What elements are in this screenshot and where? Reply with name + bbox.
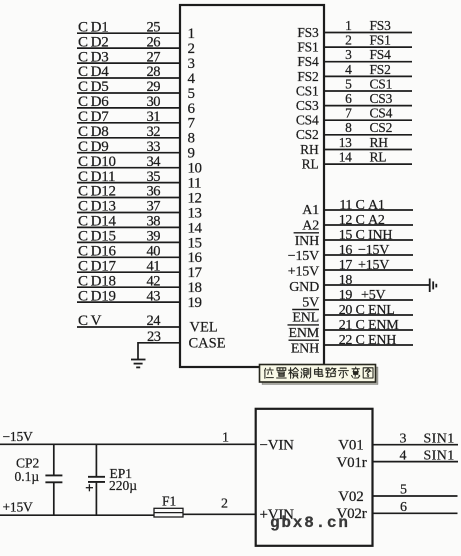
wire CD11 pin 35	[77, 182, 180, 184]
svg-text:18: 18	[339, 273, 353, 288]
wire V01r pin 4 (SIN1)	[373, 461, 459, 463]
svg-text:+15V: +15V	[288, 265, 319, 280]
svg-text:RL: RL	[370, 150, 387, 165]
svg-text:5: 5	[400, 482, 407, 497]
wire CD10 pin 34	[77, 167, 180, 169]
wire CD16 pin 40	[77, 256, 180, 258]
svg-text:24: 24	[147, 313, 162, 329]
svg-text:CS2: CS2	[296, 127, 319, 142]
svg-text:INH: INH	[295, 234, 319, 249]
svg-text:−15V: −15V	[358, 243, 389, 258]
svg-text:−15V: −15V	[288, 249, 319, 264]
wire CS2 pin 8	[324, 134, 412, 136]
svg-text:C: C	[356, 198, 365, 213]
caption box 位置检测电路示意图	[260, 365, 376, 383]
svg-text:CS2: CS2	[370, 120, 393, 135]
wire RH pin 13	[324, 149, 412, 151]
svg-text:C D2: C D2	[78, 34, 109, 50]
wire CD8 pin 32	[77, 137, 180, 139]
svg-text:FS2: FS2	[297, 69, 318, 84]
svg-text:12: 12	[339, 213, 353, 228]
wire CD13 pin 37	[77, 212, 180, 214]
wire CD17 pin 41	[77, 271, 180, 273]
svg-text:C D13: C D13	[78, 199, 116, 215]
svg-text:C D14: C D14	[78, 214, 117, 230]
wire ENH pin 22	[324, 344, 413, 346]
svg-text:2: 2	[188, 41, 195, 57]
wire CD9 pin 33	[77, 152, 180, 154]
svg-text:CS4: CS4	[296, 113, 319, 128]
wire CS4 pin 7	[324, 119, 412, 121]
svg-text:RL: RL	[302, 157, 319, 172]
svg-text:FS1: FS1	[370, 33, 391, 48]
svg-text:ENL: ENL	[292, 311, 319, 326]
svg-text:1: 1	[222, 430, 229, 445]
wire V02r pin 6	[373, 512, 458, 514]
svg-text:C D6: C D6	[78, 94, 109, 110]
svg-text:C D5: C D5	[78, 79, 109, 95]
polarity + mark for EP1	[86, 484, 93, 491]
wire CP2 bottom lead	[53, 483, 55, 515]
svg-text:11: 11	[339, 198, 352, 213]
svg-text:FS4: FS4	[297, 54, 319, 69]
svg-text:19: 19	[339, 288, 353, 303]
svg-text:27: 27	[147, 49, 161, 65]
svg-text:37: 37	[147, 199, 161, 215]
wire CD2 pin 26	[77, 47, 180, 49]
svg-text:CS1: CS1	[370, 76, 393, 91]
svg-text:C V: C V	[78, 313, 102, 329]
svg-text:+5V: +5V	[361, 288, 385, 303]
wire CD15 pin 39	[77, 241, 180, 243]
svg-text:V01: V01	[338, 438, 363, 454]
svg-text:SIN1: SIN1	[424, 448, 455, 463]
wire CD7 pin 31	[77, 122, 180, 124]
wire CV pin 24	[77, 326, 180, 328]
svg-text:7: 7	[345, 106, 352, 121]
svg-text:12: 12	[188, 190, 202, 206]
svg-text:ENL: ENL	[368, 303, 395, 318]
svg-text:CASE: CASE	[189, 335, 226, 351]
svg-text:32: 32	[147, 124, 161, 140]
wire FS3 pin 1	[324, 32, 412, 34]
svg-text:SIN1: SIN1	[424, 431, 455, 446]
svg-text:4: 4	[188, 71, 196, 87]
svg-text:C: C	[356, 333, 365, 348]
svg-text:21: 21	[339, 318, 353, 333]
svg-text:C D3: C D3	[78, 49, 109, 65]
svg-text:36: 36	[147, 184, 161, 200]
svg-text:F1: F1	[162, 494, 176, 509]
op-amp U2 DC-DC converter body	[256, 409, 373, 546]
svg-text:14: 14	[188, 220, 203, 236]
svg-text:FS2: FS2	[370, 62, 391, 77]
op-amp U1 main IC body	[180, 5, 324, 367]
svg-text:20: 20	[339, 303, 353, 318]
wire CD4 pin 28	[77, 77, 180, 79]
svg-text:40: 40	[147, 244, 161, 260]
wire CD6 pin 30	[77, 107, 180, 109]
svg-text:7: 7	[188, 116, 196, 132]
svg-text:42: 42	[147, 273, 161, 289]
svg-text:V02: V02	[338, 489, 363, 505]
wire -15V rail to pin 1	[0, 443, 256, 445]
svg-text:0.1µ: 0.1µ	[15, 469, 40, 484]
svg-text:C D12: C D12	[78, 184, 116, 200]
ground (CASE)	[131, 360, 146, 368]
svg-text:16: 16	[188, 250, 203, 266]
svg-text:C D16: C D16	[78, 244, 117, 260]
svg-text:ENM: ENM	[368, 318, 399, 333]
svg-text:30: 30	[147, 94, 161, 110]
svg-text:A2: A2	[368, 213, 385, 228]
fuse F1	[154, 508, 183, 517]
svg-text:25: 25	[147, 19, 161, 35]
svg-text:FS3: FS3	[370, 18, 392, 33]
svg-text:16: 16	[339, 243, 353, 258]
wire +15V rail to fuse F1	[0, 514, 154, 516]
ground (GND pin 18, sideways)	[430, 279, 437, 293]
svg-text:FS1: FS1	[297, 40, 318, 55]
caption text 位置检测电路示意图 (drawn strokes)	[265, 367, 373, 378]
svg-text:9: 9	[188, 146, 195, 162]
svg-text:C D11: C D11	[78, 169, 115, 185]
wire GND pin 18	[324, 284, 430, 286]
wire V01 pin 3 (SIN1)	[373, 444, 459, 446]
svg-text:ENH: ENH	[291, 341, 319, 356]
svg-text:CS4: CS4	[370, 106, 393, 121]
capacitor EP1 (electrolytic)	[88, 477, 105, 482]
wire EP1 top lead	[95, 444, 97, 476]
wire ENM pin 21	[324, 329, 413, 331]
wire CD1 pin 25	[77, 32, 180, 34]
svg-text:13: 13	[188, 205, 202, 221]
svg-text:FS4: FS4	[370, 47, 392, 62]
svg-text:A1: A1	[302, 203, 319, 218]
svg-text:C: C	[356, 318, 365, 333]
svg-text:CS3: CS3	[370, 91, 393, 106]
svg-text:23: 23	[147, 329, 161, 345]
svg-text:6: 6	[188, 101, 196, 117]
svg-text:CS1: CS1	[296, 83, 319, 98]
wire −15V pin 16	[324, 254, 413, 256]
wire FS1 pin 2	[324, 46, 412, 48]
svg-text:C D9: C D9	[78, 139, 109, 155]
svg-text:C D7: C D7	[78, 109, 109, 125]
wire pin 23 to ground	[138, 343, 180, 360]
overline for ENM	[288, 324, 320, 326]
wire CD12 pin 36	[77, 197, 180, 199]
svg-text:28: 28	[147, 64, 161, 80]
svg-text:A2: A2	[302, 219, 319, 234]
svg-text:RH: RH	[300, 142, 319, 157]
svg-text:39: 39	[147, 229, 161, 245]
wire V02 pin 5	[373, 495, 458, 497]
wire CD5 pin 29	[77, 92, 180, 94]
wire 5V pin 19	[324, 299, 413, 301]
wire CD19 pin 43	[77, 301, 180, 303]
svg-text:−VIN: −VIN	[260, 438, 295, 454]
svg-text:−15V: −15V	[3, 429, 34, 444]
svg-text:38: 38	[147, 214, 161, 230]
svg-text:3: 3	[400, 431, 407, 446]
svg-text:8: 8	[188, 131, 195, 147]
caption box shadow	[262, 367, 378, 385]
svg-text:15: 15	[188, 235, 202, 251]
svg-text:CS3: CS3	[296, 98, 319, 113]
svg-text:8: 8	[345, 120, 352, 135]
svg-text:C D4: C D4	[78, 64, 109, 80]
capacitor CP2	[45, 475, 62, 482]
svg-text:18: 18	[188, 280, 202, 296]
svg-text:43: 43	[147, 288, 161, 304]
svg-text:VEL: VEL	[190, 320, 218, 336]
svg-text:31: 31	[147, 109, 161, 125]
wire CS1 pin 5	[324, 90, 412, 92]
wire CP2 top lead	[53, 444, 55, 474]
svg-text:FS3: FS3	[297, 25, 319, 40]
svg-text:15: 15	[339, 228, 353, 243]
wire CS3 pin 6	[324, 105, 412, 107]
svg-text:35: 35	[147, 169, 161, 185]
svg-text:11: 11	[188, 176, 201, 192]
overline for INH	[294, 232, 319, 234]
wire ENL pin 20	[324, 314, 413, 316]
svg-text:C: C	[356, 228, 365, 243]
svg-text:C D8: C D8	[78, 124, 109, 140]
svg-text:34: 34	[147, 154, 162, 170]
svg-text:6: 6	[400, 500, 407, 515]
svg-text:1: 1	[345, 18, 351, 33]
wire INH pin 15	[324, 239, 413, 241]
wire +15V pin 17	[324, 269, 413, 271]
svg-text:26: 26	[147, 34, 161, 50]
svg-text:4: 4	[345, 62, 352, 77]
svg-text:RH: RH	[370, 135, 389, 150]
overline for ENL	[292, 309, 319, 311]
svg-text:220µ: 220µ	[109, 478, 137, 493]
svg-text:GND: GND	[289, 280, 319, 295]
svg-text:gbx8.cn: gbx8.cn	[270, 514, 350, 532]
svg-text:5: 5	[188, 86, 195, 102]
svg-text:33: 33	[147, 139, 161, 155]
svg-text:6: 6	[345, 91, 352, 106]
svg-text:14: 14	[339, 150, 352, 165]
svg-text:3: 3	[188, 56, 195, 72]
svg-text:C D18: C D18	[78, 273, 116, 289]
svg-text:V01r: V01r	[336, 455, 366, 471]
svg-text:C D1: C D1	[78, 19, 109, 35]
svg-text:17: 17	[188, 265, 203, 281]
wire fuse F1 to pin 2	[183, 513, 256, 515]
svg-text:+15V: +15V	[358, 258, 389, 273]
wire FS4 pin 3	[324, 61, 412, 63]
overline for ENH	[289, 339, 320, 341]
svg-text:29: 29	[147, 79, 161, 95]
svg-text:17: 17	[339, 258, 353, 273]
svg-text:5: 5	[345, 76, 352, 91]
wire EP1 bottom lead	[95, 483, 97, 516]
svg-text:2: 2	[345, 33, 351, 48]
wire CD14 pin 38	[77, 226, 180, 228]
svg-text:3: 3	[345, 47, 352, 62]
svg-text:ENH: ENH	[368, 333, 396, 348]
svg-text:C D10: C D10	[78, 154, 116, 170]
wire A1 pin 11	[324, 209, 413, 211]
svg-text:+15V: +15V	[3, 500, 34, 515]
wire A2 pin 12	[324, 224, 413, 226]
svg-text:C D15: C D15	[78, 229, 116, 245]
svg-text:1: 1	[188, 26, 195, 42]
svg-text:41: 41	[147, 258, 161, 274]
svg-text:C D19: C D19	[78, 288, 116, 304]
svg-text:C D17: C D17	[78, 258, 117, 274]
svg-text:10: 10	[188, 161, 202, 177]
svg-text:C: C	[356, 213, 365, 228]
wire RL pin 14	[324, 163, 412, 165]
wire FS2 pin 4	[324, 75, 412, 77]
svg-text:13: 13	[339, 135, 352, 150]
svg-text:19: 19	[188, 295, 202, 311]
svg-text:C: C	[356, 303, 365, 318]
wire CD3 pin 27	[77, 62, 180, 64]
svg-text:5V: 5V	[302, 295, 319, 310]
svg-text:ENM: ENM	[288, 326, 319, 341]
svg-text:INH: INH	[368, 228, 392, 243]
svg-text:4: 4	[400, 448, 407, 463]
svg-text:A1: A1	[368, 198, 385, 213]
svg-text:22: 22	[339, 333, 353, 348]
wire CD18 pin 42	[77, 286, 180, 288]
svg-text:2: 2	[221, 497, 228, 512]
